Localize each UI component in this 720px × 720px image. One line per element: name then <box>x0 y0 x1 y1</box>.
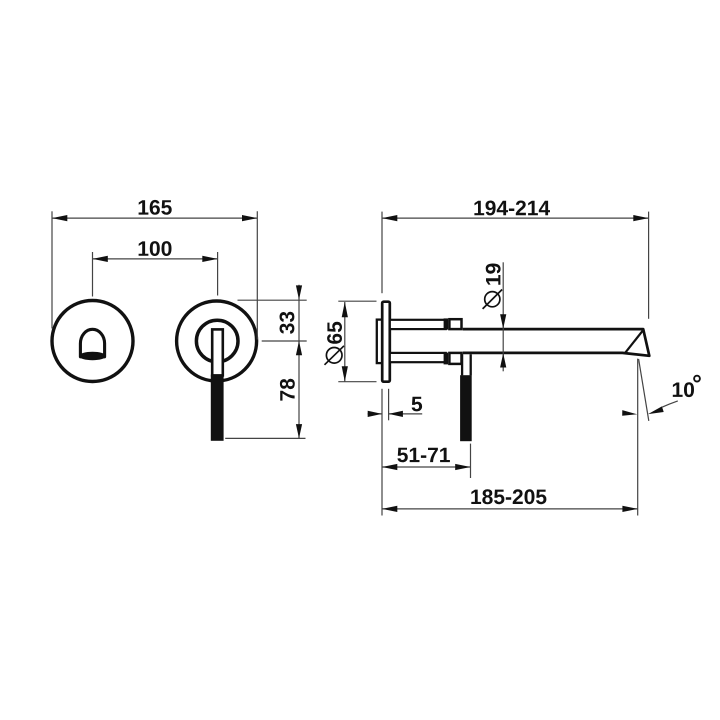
spout front view outline <box>80 329 104 356</box>
handle lever upper (white) front view <box>212 329 223 375</box>
dimension d19 text (rotated) <box>486 264 501 285</box>
dimension 5 text <box>412 397 423 412</box>
dimension 51-71 text <box>397 448 450 463</box>
left escutcheon circle (spout flange, front view) <box>52 301 133 382</box>
lower connection band (side view) <box>390 353 446 362</box>
wall plate (side view) <box>382 302 390 382</box>
lower joint black bar <box>444 353 449 365</box>
dimension 165 text <box>139 200 172 215</box>
dimension 194-214 text <box>474 201 550 216</box>
extension line top of 33 <box>238 299 307 301</box>
diameter symbol of d19 <box>485 292 500 307</box>
dimension 185-205 line <box>382 508 638 510</box>
extension line plate front face <box>388 389 390 421</box>
extension line right of 100 <box>217 252 219 296</box>
spout mouth filled ellipse <box>80 353 105 360</box>
extension line right of 51-71 <box>470 444 472 478</box>
extension line right of 194-214 <box>648 212 650 319</box>
dimension d65 text (rotated) <box>327 322 342 344</box>
handle stem white (side view) <box>462 354 471 375</box>
extension line right of 165 <box>256 211 258 339</box>
extension line top of d65 <box>338 300 376 302</box>
dimension 33 text (rotated) <box>280 312 295 334</box>
extension line left of 165 <box>51 211 53 328</box>
dimension 185-205 text <box>471 489 546 504</box>
dimension 100 line <box>93 258 218 260</box>
extension line right of 185-205 / angle reference vertical <box>637 359 639 516</box>
angle 10 deg text <box>673 382 694 397</box>
extension line between 33 and 78 <box>262 340 307 342</box>
extension line bottom of d65 <box>338 381 376 383</box>
dimension d65 line <box>344 302 346 382</box>
angle arrow left <box>622 410 637 416</box>
angle arc <box>662 401 678 407</box>
upper joint black bar <box>444 318 449 329</box>
spout tip inner edge <box>625 331 643 353</box>
handle black (side view) <box>460 375 472 441</box>
dimension 194-214 line <box>382 217 649 219</box>
angle arrow right <box>648 406 664 414</box>
10 degree slant line <box>639 359 649 421</box>
upper connection band (side view) <box>390 320 446 329</box>
dimension line 33/78 vertical <box>298 285 300 439</box>
extension line bottom of 78 <box>225 437 305 439</box>
handle inner ring <box>196 320 238 362</box>
diameter symbol of d65 <box>326 348 342 364</box>
spout tube (side view) <box>463 329 650 356</box>
extension line left of 194-214 <box>381 212 383 294</box>
right escutcheon circle (handle flange, front view) <box>177 301 257 381</box>
extension line wall face (long, left) <box>381 389 383 516</box>
dimension 78 text (rotated) <box>280 379 295 401</box>
dimension 51-71 line <box>382 466 471 468</box>
in-wall body (side view) <box>377 320 383 364</box>
handle lever lower (black) front view <box>211 375 224 441</box>
upper collar (side view) <box>449 319 461 329</box>
extension line left of 100 <box>92 252 94 297</box>
dimension d19 line <box>502 262 504 371</box>
dimension 165 line <box>52 217 257 219</box>
dimension 5 lines <box>368 413 423 415</box>
lower collar (side view) <box>449 353 461 364</box>
dimension 100 text <box>139 241 172 256</box>
